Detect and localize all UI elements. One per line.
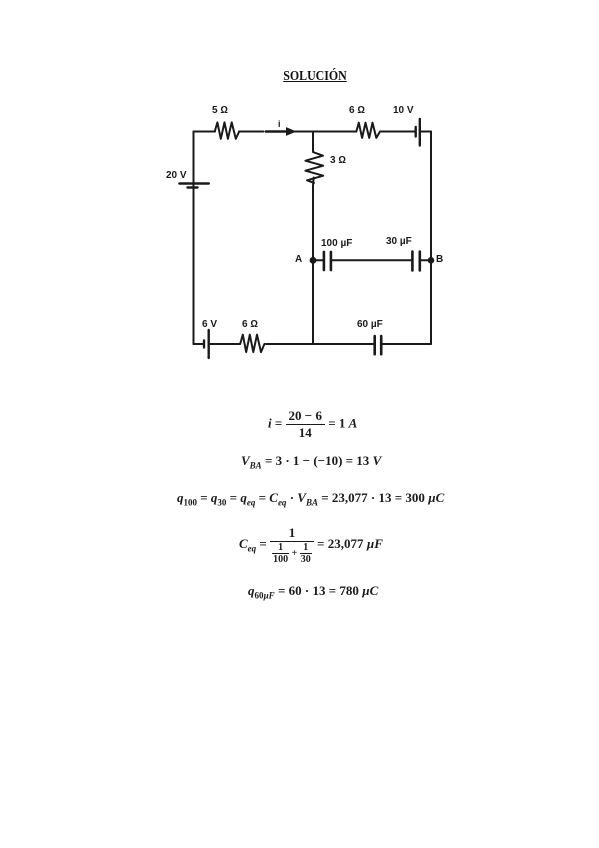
wire 100uF to 30uF [331,259,412,261]
equation 4: Ceq = 1/(1/100+1/30) [239,525,383,565]
label 6 ohm bottom [242,319,258,330]
wire right vertical upper [430,132,432,261]
resistor R 6 ohm top [356,123,380,138]
label node B [436,254,443,265]
wire to battery 10V [381,131,415,133]
equation 5: q60uF = 60*13 = 780 uC [248,583,378,599]
resistor R 6 ohm bottom [240,335,264,352]
wire arrow to center node [294,131,313,133]
wire 3ohm to node A [312,178,315,261]
battery 6 V short plate [203,341,205,348]
capacitor 100 uF right plate [330,252,333,270]
wire 30uF to node B [420,259,431,261]
wire top middle segment [239,131,264,133]
battery 10 V long plate [419,119,421,146]
node A junction dot [310,257,317,264]
battery 20 V long plate [179,182,208,184]
wire top-left horizontal [194,131,216,133]
label 60 uF [357,319,383,330]
wire bottom-left to battery 6V [194,343,204,345]
label 100 uF [321,238,352,249]
wire left vertical upper [193,132,195,188]
label 5 ohm [212,105,228,116]
wire center vertical top [312,132,314,153]
equation 3: q100 = q30 = qeq [177,490,444,506]
wire node A to 100uF [313,259,323,261]
wire 60uF to bottom-right corner [381,343,431,345]
capacitor 30 uF right plate [418,252,421,271]
wire node A down to bottom [312,260,314,344]
label i [278,119,281,129]
label 3 ohm [330,155,346,166]
battery 6 V long plate [207,330,209,358]
resistor R 3 ohm vertical [305,152,323,183]
capacitor 60 uF right plate [380,336,383,354]
node B junction dot [428,257,435,264]
title SOLUCIÓN [261,69,368,85]
equation 1: i = (20-6)/14 = 1 A [268,408,357,441]
capacitor 100 uF left plate [323,252,326,270]
wire battery to 6 ohm resistor [209,343,240,345]
wire center node to 6ohm resistor [313,131,355,133]
label 20 V [166,170,187,181]
label node A [295,254,302,265]
label 6 V [202,319,217,330]
battery 20 V short plate [188,186,198,188]
resistor R 5 ohm [215,122,239,138]
wire right vertical lower [430,260,432,344]
wire battery to top-right corner [420,131,431,133]
wire left vertical lower [193,188,195,345]
wire resistor to center bottom node [266,343,313,345]
label 10 V [393,105,414,116]
capacitor 30 uF left plate [411,252,414,271]
current arrow i [266,128,295,135]
label 6 ohm top [349,105,365,116]
wire center bottom node to 60uF [313,343,374,345]
capacitor 60 uF left plate [373,336,376,354]
label 30 uF [386,236,412,247]
battery 10 V short plate [415,127,417,137]
equation 2: VBA = 3*1-(-10) = 13 V [241,453,381,469]
